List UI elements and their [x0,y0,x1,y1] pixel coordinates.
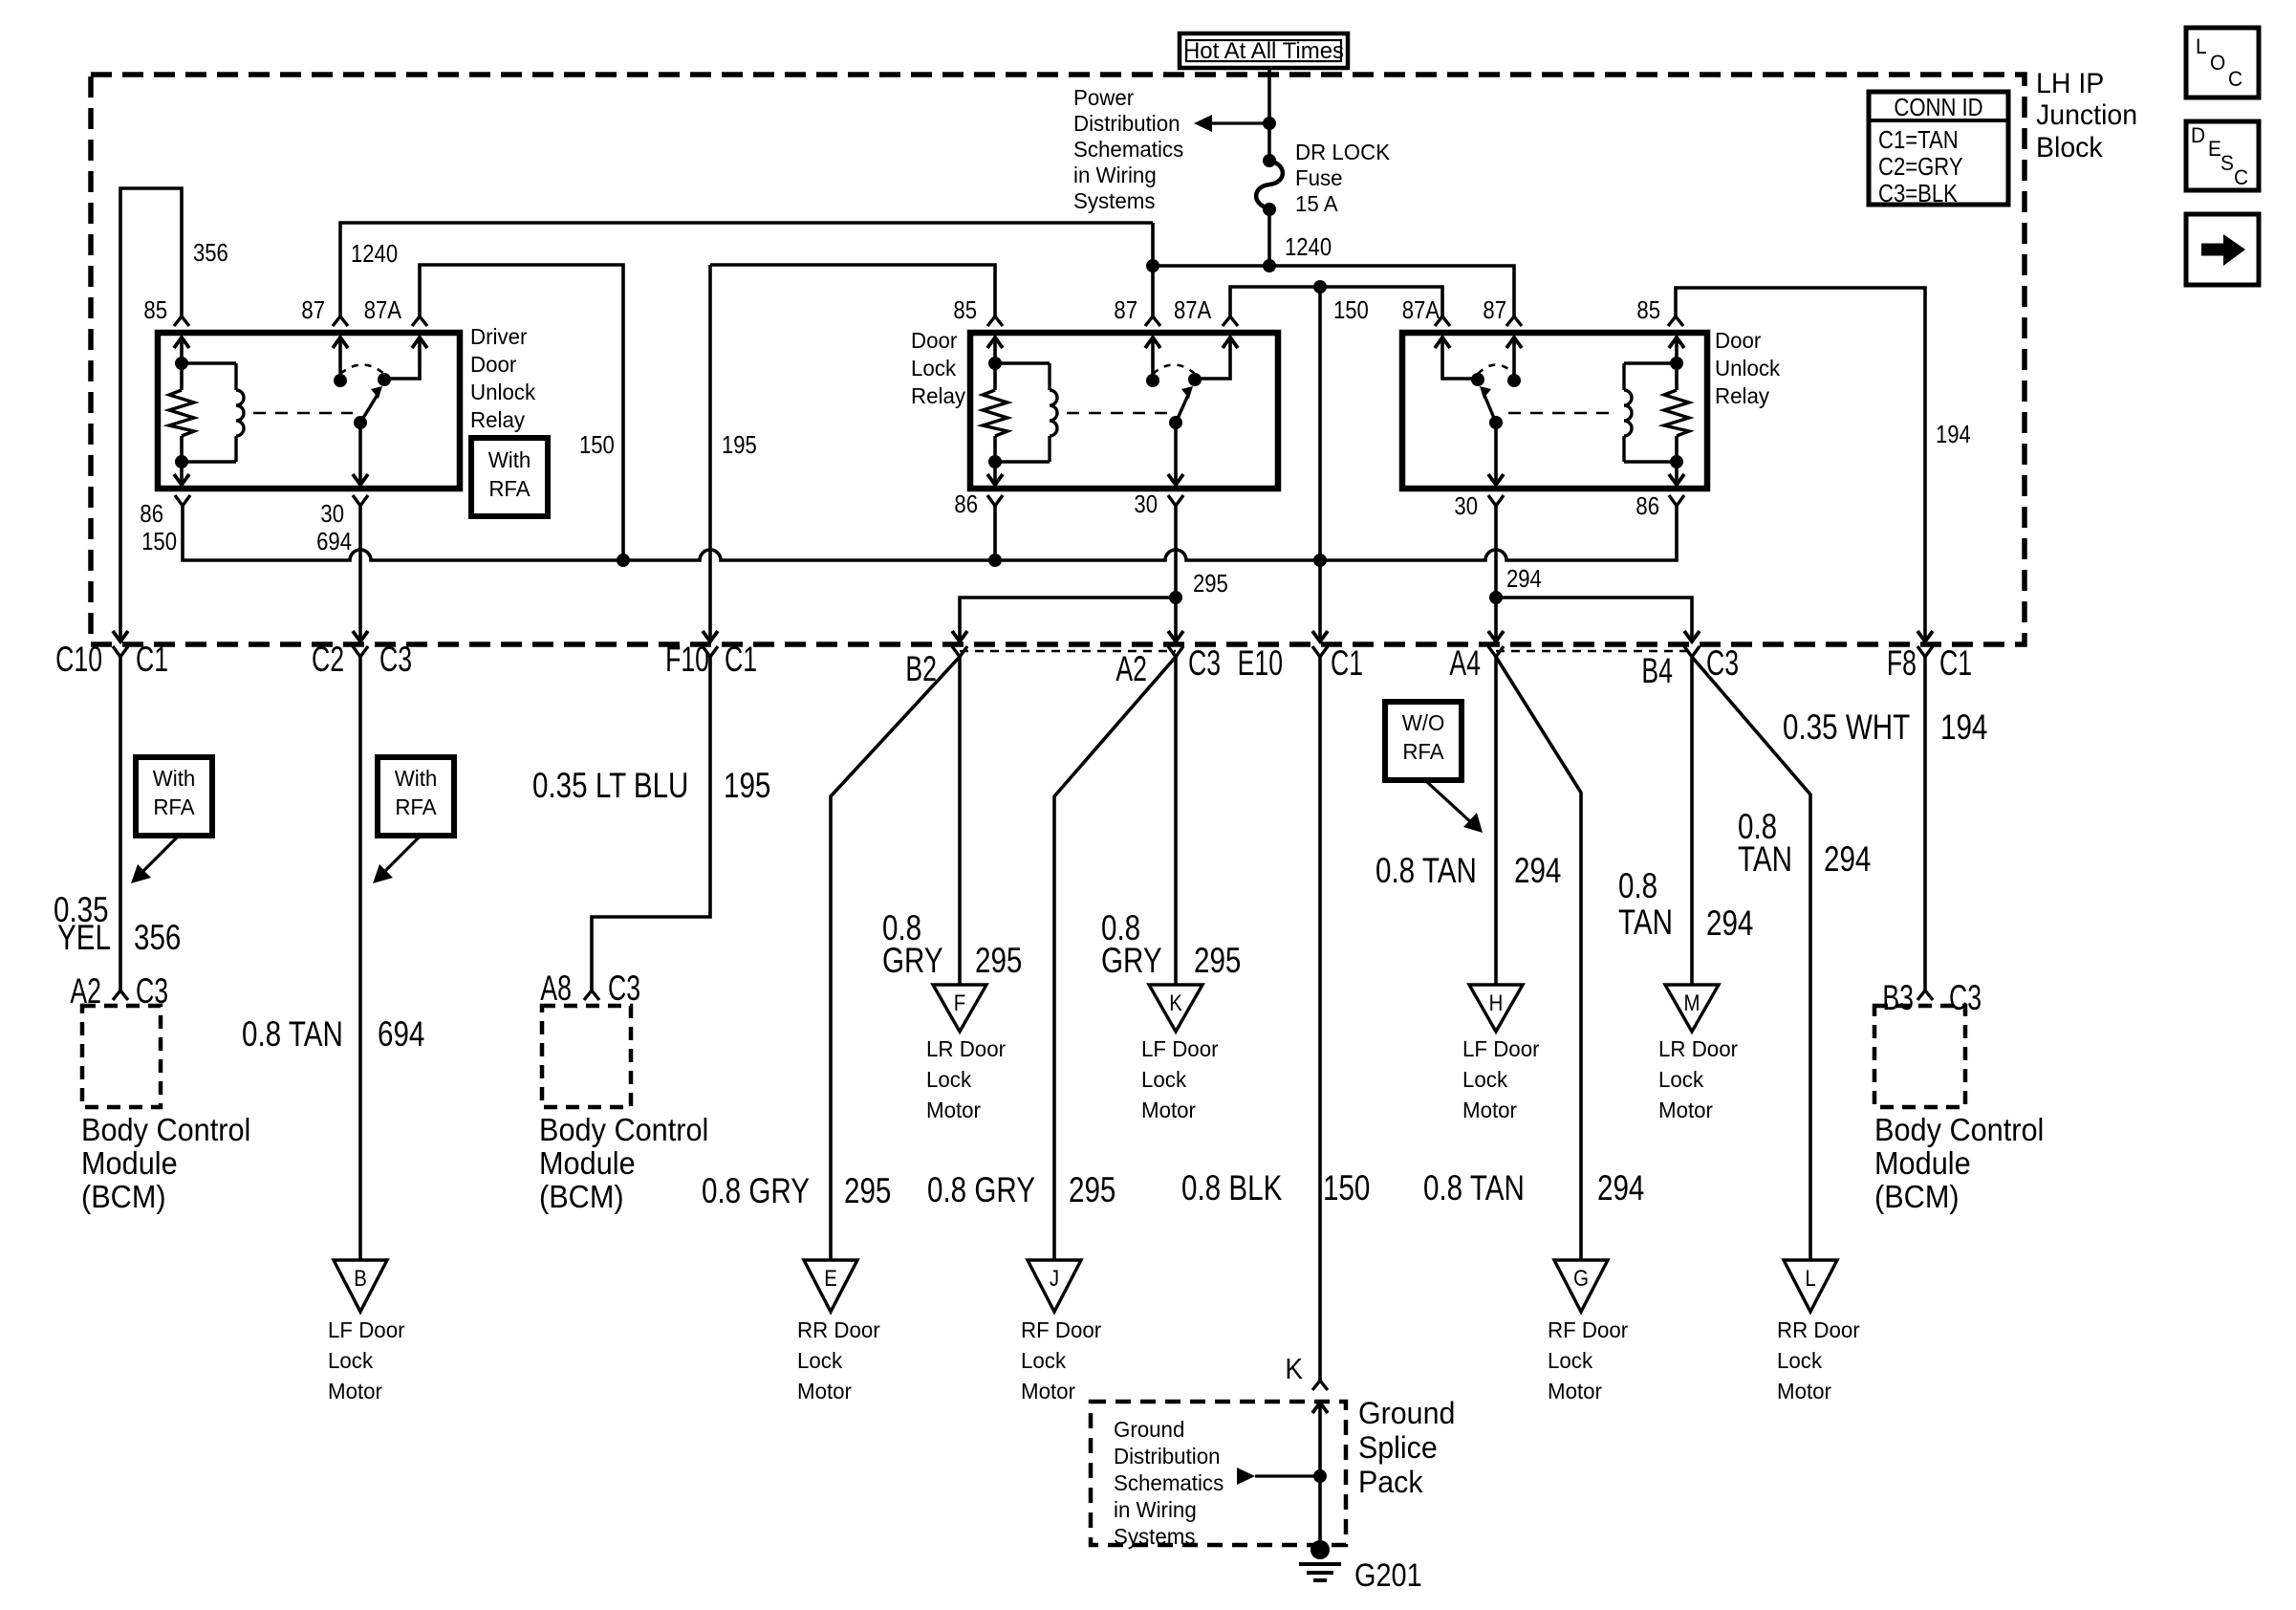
With RFA callout box for 694 wire [378,757,454,836]
relay K2 Door Lock Relay box [970,333,1278,489]
relay K1 Driver Door Unlock Relay box [158,333,460,489]
wire 694 from relay1 pin 30 to C2/C3 [358,506,362,642]
svg-text:87: 87 [1114,296,1137,324]
svg-text:Lock: Lock [1141,1067,1187,1092]
next-page arrow box [2186,214,2259,285]
svg-text:150: 150 [1333,296,1369,324]
svg-text:RR Door: RR Door [1777,1317,1860,1342]
LF Door Lock Motor triangle K [1149,985,1202,1032]
svg-text:86: 86 [954,490,978,518]
svg-text:A4: A4 [1449,643,1481,683]
svg-text:0.8 TAN: 0.8 TAN [1375,852,1477,891]
svg-text:150: 150 [141,528,177,555]
svg-text:C1=TAN: C1=TAN [1878,126,1959,154]
svg-text:150: 150 [579,431,615,459]
svg-text:Motor: Motor [1021,1379,1075,1403]
relay coil feed arrow [174,337,189,348]
svg-text:Ground: Ground [1358,1396,1455,1430]
svg-text:694: 694 [378,1015,424,1055]
wire 195 from F10/C1 up and over to relay2 pin 85 [710,265,995,316]
svg-text:0.8 GRY: 0.8 GRY [702,1172,810,1211]
svg-text:F10: F10 [665,640,709,679]
relay K3 Door Unlock Relay box [1402,333,1707,489]
wire 194 below F8/C1 to BCM B3/C3 [1923,657,1927,990]
relay K2 pin 85 fork [987,316,1003,326]
wire 295 diagonal from B2 to RR motor E [831,657,960,1260]
wire 294 main to A4 [1494,598,1498,642]
svg-text:C1: C1 [725,640,757,679]
svg-text:Relay: Relay [1715,383,1770,408]
svg-text:87A: 87A [1174,296,1212,324]
Body Control Module dashed box left [82,1006,161,1107]
svg-text:GRY: GRY [882,942,943,981]
svg-text:Systems: Systems [1114,1524,1195,1549]
relay K3 pin 30 fork [1488,495,1504,506]
svg-text:K: K [1169,990,1182,1015]
svg-text:W/O: W/O [1402,710,1445,735]
svg-text:With: With [153,766,196,791]
svg-text:30: 30 [1454,492,1478,520]
Body Control Module dashed box center [542,1006,631,1107]
svg-text:C3: C3 [608,968,640,1008]
svg-text:B2: B2 [905,649,937,688]
svg-text:295: 295 [1069,1171,1116,1210]
svg-text:K: K [1285,1353,1303,1386]
svg-text:Module: Module [81,1145,178,1181]
svg-text:294: 294 [1706,904,1753,944]
svg-text:295: 295 [844,1172,891,1211]
junction dot 1240 at fuse [1263,259,1276,272]
relay K1 pin 87A fork [412,316,427,326]
relay K3 pin 87A fork [1435,316,1450,326]
thin dashed connector C3 link A4-B4 [1496,650,1692,653]
wire 295 from relay2 pin 30 down [1174,506,1178,598]
svg-text:in Wiring: in Wiring [1114,1497,1197,1522]
svg-text:Module: Module [1874,1145,1971,1181]
LR Door Lock Motor triangle F [933,985,986,1032]
svg-text:Motor: Motor [1658,1098,1713,1122]
svg-text:Ground: Ground [1114,1417,1184,1442]
wire 694 below C2/C3 to LF motor [358,657,362,1260]
wire 295 from A2/C3 to LF door lock motor K [1174,657,1178,985]
relay coil wire upper [993,337,997,390]
relay K3 pin 86 fork [1669,495,1684,506]
relay 87 contact [1145,337,1160,348]
switch common wire to pin 30 [1174,423,1178,484]
wire 294 diagonal from B4 to RR motor L [1692,657,1810,1260]
coil parallel branch [995,361,1050,364]
svg-text:With: With [395,766,438,791]
svg-text:J: J [1050,1265,1059,1291]
svg-text:Motor: Motor [1141,1098,1196,1122]
junction dot 150 drop [1313,280,1327,294]
relay K2 pin 87 fork [1145,316,1160,326]
wire 294 from B4 to LR door lock motor M [1690,657,1694,985]
connector pin arrow and fork at x=1004 [952,631,967,642]
relay 87A contact [412,337,427,348]
fuse DR LOCK 15A symbol [1263,154,1276,167]
svg-text:With: With [488,447,531,472]
svg-text:C2=GRY: C2=GRY [1878,153,1963,181]
svg-text:195: 195 [722,431,757,459]
svg-text:194: 194 [1936,421,1971,448]
relay coil wire upper [1675,337,1679,390]
svg-text:295: 295 [1193,570,1228,598]
connector pin arrow and fork at x=743 [703,631,718,642]
junction dot relay2 86 on ground bus [988,554,1002,567]
relay K1 pin 87 fork [333,316,348,326]
RR Door Lock Motor triangle L [1784,1260,1837,1312]
CONN ID table box [1869,92,2008,205]
svg-text:Schematics: Schematics [1114,1470,1224,1495]
wire 295 branch to B2 [960,598,1176,642]
wire 294 branch to B4 [1496,598,1692,642]
svg-text:86: 86 [140,500,163,528]
svg-text:Body Control: Body Control [81,1112,250,1147]
svg-text:RFA: RFA [395,794,437,819]
junction dot 1240 at relay2 87 [1146,259,1159,272]
svg-text:B4: B4 [1641,651,1673,690]
svg-text:87: 87 [1483,296,1506,324]
svg-text:C1: C1 [1939,643,1972,683]
resistor [169,390,194,436]
relay 87A contact [1223,337,1238,348]
wire 294 diagonal from A4 to RF motor G [1496,657,1581,1260]
svg-text:in Wiring: in Wiring [1073,163,1157,187]
svg-text:Power: Power [1073,85,1135,110]
svg-text:87A: 87A [364,296,402,324]
svg-text:A8: A8 [540,968,572,1008]
relay coil exit arrow [1669,474,1684,485]
wire relay2 pin 86 to ground bus [993,506,997,560]
svg-text:(BCM): (BCM) [81,1179,166,1214]
junction dot power-distribution tap [1263,117,1276,130]
svg-text:87A: 87A [1402,296,1440,324]
svg-text:Relay: Relay [911,383,966,408]
svg-text:LR Door: LR Door [1658,1036,1738,1061]
DESC box [2186,121,2259,190]
svg-text:GRY: GRY [1101,942,1162,981]
connector pin arrow and fork at x=1381 [1312,631,1328,642]
svg-text:85: 85 [1636,296,1660,324]
wire 195 below F10/C1 to BCM A8/C3 [592,657,710,990]
svg-text:Body Control: Body Control [539,1112,708,1147]
relay K2 pin 87A fork [1223,316,1238,326]
relay coil wire lower [1675,436,1679,484]
svg-text:15 A: 15 A [1295,191,1339,216]
wire 356 below C10/C1 to BCM A2/C3 [119,657,122,990]
svg-text:0.8 TAN: 0.8 TAN [242,1015,343,1055]
svg-text:Door: Door [911,328,958,353]
svg-text:1240: 1240 [1285,233,1332,261]
W/O RFA callout box [1385,702,1462,780]
svg-text:Lock: Lock [1021,1348,1067,1373]
wire fuse to 1240 bus [1267,209,1271,266]
svg-text:1240: 1240 [351,240,398,268]
svg-text:356: 356 [134,919,181,958]
svg-text:Lock: Lock [328,1348,374,1373]
relay coil exit arrow [174,474,189,485]
wire 295 from B2 to LR door lock motor F [958,657,962,985]
relay K2 dashed actuator link [1067,412,1168,415]
svg-text:Lock: Lock [1548,1348,1593,1373]
ground symbol G201 [1310,1540,1330,1559]
svg-text:Distribution: Distribution [1114,1444,1221,1469]
relay coil feed arrow [1669,337,1684,348]
svg-text:Block: Block [2036,132,2103,163]
svg-text:150: 150 [1323,1169,1370,1208]
arrow from With RFA box to 694 wire [381,837,420,875]
svg-text:TAN: TAN [1738,840,1792,880]
connector pin arrow and fork at x=2014 [1917,631,1933,642]
svg-text:0.8 GRY: 0.8 GRY [927,1171,1035,1210]
svg-text:L: L [2196,35,2207,59]
Body Control Module dashed box right [1874,1006,1965,1107]
svg-text:B3: B3 [1882,978,1914,1017]
svg-text:D: D [2191,124,2205,148]
arrow up into splice pack [1312,1403,1328,1413]
svg-text:0.8 TAN: 0.8 TAN [1423,1169,1525,1208]
svg-text:(BCM): (BCM) [1874,1179,1960,1214]
svg-text:30: 30 [320,500,344,528]
wire 194 from relay3 pin 85 over to F8/C1 [1676,288,1925,642]
LF Door Lock Motor triangle B [334,1260,387,1312]
relay K1 pin 30 fork [353,495,368,506]
arrowhead to Power Distribution Schematics [1194,115,1212,132]
svg-text:TAN: TAN [1618,903,1673,943]
resistor [1664,390,1689,436]
wire inside splice pack to ground [1318,1402,1322,1550]
wire 195 vertical to F10 connector [708,265,712,642]
With RFA callout box left [136,757,212,836]
coil parallel branch [1624,361,1677,364]
relay K2 pin 86 fork [987,495,1003,506]
relay K1 dashed actuator link [253,412,353,415]
junction dot on ground wire [1313,1469,1327,1483]
svg-text:Distribution: Distribution [1073,111,1180,136]
svg-text:O: O [2210,52,2225,76]
connector pin arrow and fork at x=377 [353,631,368,642]
svg-text:H: H [1489,990,1504,1015]
svg-text:Door: Door [1715,328,1762,353]
svg-text:CONN ID: CONN ID [1894,94,1982,121]
svg-text:(BCM): (BCM) [539,1179,624,1214]
relay coil exit arrow [987,474,1003,485]
svg-text:85: 85 [143,296,167,324]
wire 294 from A4 to LF door lock motor H [1494,657,1498,985]
svg-text:0.8 BLK: 0.8 BLK [1181,1169,1282,1208]
LOC box [2186,28,2259,98]
relay K3 pin 85 fork [1668,316,1683,326]
connector pin arrow and fork at x=1230 [1168,631,1183,642]
svg-text:Pack: Pack [1358,1465,1423,1499]
svg-text:C1: C1 [1331,643,1363,683]
wire 150 between relay2 87A and relay3 87A [1230,287,1442,316]
svg-text:0.8: 0.8 [1618,867,1657,906]
wire 1240 bus upper run to relay1 pin 87 [340,223,1153,316]
svg-text:356: 356 [193,239,228,267]
svg-text:E: E [824,1265,837,1291]
svg-text:294: 294 [1506,565,1542,593]
svg-text:A2: A2 [1116,649,1147,688]
svg-text:RF Door: RF Door [1548,1317,1629,1342]
connector pin arrow and fork at x=1770 [1684,631,1700,642]
svg-text:295: 295 [1194,942,1241,981]
switch blade [354,416,367,429]
svg-text:Door: Door [470,352,517,377]
relay coil wire lower [993,436,997,484]
svg-text:C10: C10 [55,640,102,679]
svg-text:Relay: Relay [470,407,526,432]
With RFA callout box relay1 [471,438,548,516]
coil parallel branch [182,361,236,364]
relay coil feed arrow [987,337,1003,348]
wire 1240 bus vertical at relay2 pin 87 [1151,223,1155,265]
wire to Power Distribution arrow [1211,121,1269,124]
LR Door Lock Motor triangle M [1665,985,1719,1032]
svg-text:0.35 WHT: 0.35 WHT [1783,708,1910,748]
LF Door Lock Motor triangle H [1469,985,1523,1032]
svg-text:195: 195 [724,767,770,806]
svg-text:E10: E10 [1238,643,1283,683]
arrowhead from Ground Distribution note [1237,1468,1255,1485]
svg-text:DR LOCK: DR LOCK [1295,140,1390,164]
wire relay2 pin 87 drop [1151,265,1155,316]
svg-text:Motor: Motor [1777,1379,1831,1403]
junction dot 295 branch [1169,591,1182,604]
svg-text:Body Control: Body Control [1874,1112,2044,1147]
connector A2 C3 fork at BCM [113,990,128,1000]
svg-text:Splice: Splice [1358,1430,1438,1465]
svg-text:Hot At All Times: Hot At All Times [1183,38,1344,64]
ground bus from relay1 pin 86 to relay3 pin 86 with wire hops [183,506,1677,560]
svg-text:S: S [2220,152,2234,176]
svg-text:Fuse: Fuse [1295,165,1343,190]
svg-text:LF Door: LF Door [1462,1036,1540,1061]
Ground Splice Pack dashed box [1091,1402,1346,1545]
wire 295 main to A2/C3 [1174,598,1178,642]
svg-text:RFA: RFA [1402,739,1444,764]
wire 356 from C10/C1 up-over to relay1 pin 85 [120,188,182,642]
svg-text:C: C [2228,68,2242,92]
relay 87 contact [333,337,348,348]
thin dashed connector C3 link B2-A2 [960,650,1176,653]
line from note arrow to ground wire [1255,1474,1320,1477]
RF Door Lock Motor triangle J [1028,1260,1081,1312]
wire 294 from relay3 pin 30 down [1494,506,1498,598]
svg-text:Unlock: Unlock [1715,356,1781,381]
svg-text:0.35 LT BLU: 0.35 LT BLU [532,767,688,806]
arrow from W/O RFA box to 294 wire [1427,782,1473,824]
svg-text:Motor: Motor [797,1379,852,1403]
svg-text:E: E [2208,138,2221,162]
svg-text:C3: C3 [1188,643,1221,683]
switch blade [1489,416,1503,429]
relay 87 contact [1506,337,1522,348]
switch blade [1169,416,1182,429]
svg-text:C3=BLK: C3=BLK [1878,180,1958,207]
svg-text:LF Door: LF Door [1141,1036,1219,1061]
Hot At All Times box [1180,33,1348,68]
wire 150 drop to E10/C1 [1318,287,1322,642]
switch common wire to pin 30 [1494,423,1498,484]
relay coil wire upper [180,337,184,390]
svg-text:RF Door: RF Door [1021,1317,1102,1342]
svg-text:87: 87 [301,296,325,324]
svg-text:M: M [1683,990,1700,1015]
svg-text:85: 85 [953,296,977,324]
RR Door Lock Motor triangle E [804,1260,857,1312]
svg-text:Junction: Junction [2036,99,2137,131]
connector A8 C3 fork at BCM [584,990,599,1000]
svg-text:Lock: Lock [1777,1348,1823,1373]
svg-text:Lock: Lock [1658,1067,1704,1092]
wire 1240 bus lower run to relay3 pin 87 [1153,266,1514,316]
svg-text:Driver: Driver [470,324,528,349]
svg-text:LR Door: LR Door [926,1036,1006,1061]
svg-text:295: 295 [975,942,1022,981]
junction dot 150 wire crossing ground bus [1313,554,1327,567]
switch travel dashed arc [1478,365,1514,375]
relay K3 dashed actuator link [1508,412,1612,415]
relay K2 pin 30 fork [1168,495,1183,506]
connector pin arrow and fork at x=126 [113,631,128,642]
svg-text:F8: F8 [1887,643,1917,683]
svg-text:294: 294 [1514,852,1561,891]
svg-text:Motor: Motor [328,1379,382,1403]
svg-text:Lock: Lock [911,356,957,381]
svg-text:G: G [1573,1265,1589,1291]
svg-text:L: L [1805,1265,1815,1291]
svg-text:Unlock: Unlock [470,380,536,404]
arrow from With RFA box to 356 wire [140,837,178,875]
relay K3 pin 87 fork [1506,316,1522,326]
junction dot 294 branch [1489,591,1503,604]
svg-text:RFA: RFA [488,476,531,501]
svg-text:86: 86 [1635,492,1659,520]
svg-text:Lock: Lock [1462,1067,1508,1092]
svg-text:G201: G201 [1354,1556,1422,1594]
switch travel dashed arc [1153,365,1195,375]
svg-text:C3: C3 [379,640,412,679]
LH IP Junction Block dashed border [91,75,2025,644]
svg-text:Motor: Motor [1462,1098,1517,1122]
svg-text:194: 194 [1940,708,1987,748]
svg-text:YEL: YEL [57,919,111,958]
connector B3 C3 fork at BCM [1917,990,1933,1000]
svg-text:B: B [354,1265,367,1291]
svg-text:294: 294 [1824,840,1871,880]
connector pin arrow and fork at x=1565 [1488,631,1504,642]
wire 295 diagonal from A2 to RF motor J [1054,657,1176,1260]
svg-text:LF Door: LF Door [328,1317,405,1342]
svg-text:Motor: Motor [1548,1379,1602,1403]
svg-text:Motor: Motor [926,1098,981,1122]
relay K1 pin 86 fork [175,495,190,506]
svg-text:Lock: Lock [797,1348,843,1373]
wire from Hot At All Times to fuse [1267,68,1271,159]
relay K1 pin 85 fork [174,316,189,326]
svg-text:Systems: Systems [1073,188,1155,213]
svg-text:Module: Module [539,1145,636,1181]
svg-text:C2: C2 [312,640,344,679]
svg-text:RR Door: RR Door [797,1317,880,1342]
relay coil wire lower [180,436,184,484]
svg-text:294: 294 [1597,1169,1644,1208]
switch travel dashed arc [340,365,384,375]
svg-text:RFA: RFA [153,794,195,819]
svg-text:C1: C1 [136,640,168,679]
